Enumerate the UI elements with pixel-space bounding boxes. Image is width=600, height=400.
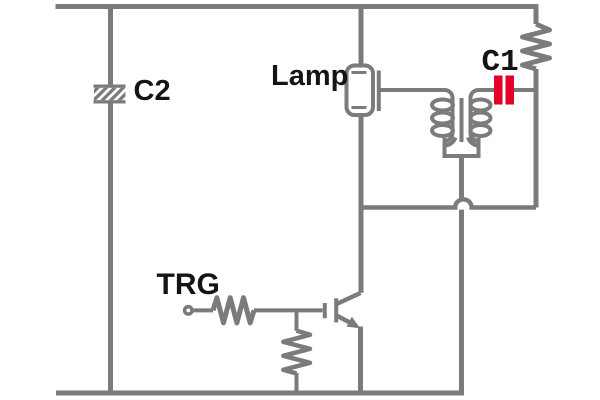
wire emitter to bottom rail bbox=[358, 327, 363, 394]
transformer T1 pedestal base bbox=[443, 138, 481, 157]
capacitor C1 plate 2 bbox=[506, 76, 515, 105]
capacitor C2 top plate bbox=[94, 85, 126, 88]
lamp top electrode bbox=[352, 71, 367, 74]
wire transformer stem to bottom rail bbox=[459, 156, 464, 393]
lamp trigger electrode bar bbox=[377, 71, 381, 112]
top rail bbox=[56, 4, 539, 9]
wire terminal to resistor bbox=[192, 308, 213, 312]
wire trigger electrode to transformer primary bbox=[381, 88, 445, 92]
resistor R trigger (horizontal) bbox=[213, 298, 254, 323]
transistor Q1 emitter arrowhead bbox=[347, 317, 361, 328]
transformer T1 core bbox=[460, 98, 464, 142]
bottom rail bbox=[56, 391, 464, 396]
transistor Q1 gate bar bbox=[323, 303, 327, 318]
lamp bottom electrode bbox=[352, 106, 367, 109]
terminal TRG input circle bbox=[185, 307, 192, 314]
wire right branch (top corner to resistor) bbox=[534, 7, 539, 25]
svg-text:C2: C2 bbox=[134, 75, 171, 107]
capacitor C1 plate 1 bbox=[494, 76, 503, 105]
wire pulldown resistor to bottom rail bbox=[295, 373, 299, 393]
transformer T1 left winding bbox=[432, 90, 453, 143]
resistor R pulldown (vertical) bbox=[283, 331, 310, 374]
transformer T1 right winding bbox=[471, 90, 491, 143]
left bus wire bbox=[108, 7, 113, 394]
transistor Q1 body bar bbox=[334, 298, 338, 322]
wire horizontal node with hop over transformer stem bbox=[361, 199, 536, 207]
wire coil to C1 bbox=[483, 88, 494, 92]
wire junction down to pulldown resistor bbox=[295, 310, 299, 330]
wire right branch (resistor to bottom node) bbox=[534, 69, 539, 208]
transistor Q1 emitter lead bbox=[337, 316, 357, 327]
wire lamp cathode down to transistor collector bbox=[359, 115, 364, 293]
wire lamp anode to top rail bbox=[359, 7, 364, 66]
wire C1 to right branch bbox=[514, 88, 536, 92]
wire resistor to gate bbox=[254, 308, 323, 312]
capacitor C2 bottom plate bbox=[94, 100, 126, 103]
svg-text:C1: C1 bbox=[482, 45, 519, 80]
svg-text:Lamp: Lamp bbox=[271, 60, 348, 92]
resistor R top-right bbox=[523, 24, 550, 69]
svg-text:TRG: TRG bbox=[157, 268, 220, 301]
transistor Q1 collector lead bbox=[337, 293, 361, 304]
capacitor C2 hatched plate bbox=[84, 87, 133, 102]
lamp Xe flash tube body bbox=[347, 66, 374, 116]
